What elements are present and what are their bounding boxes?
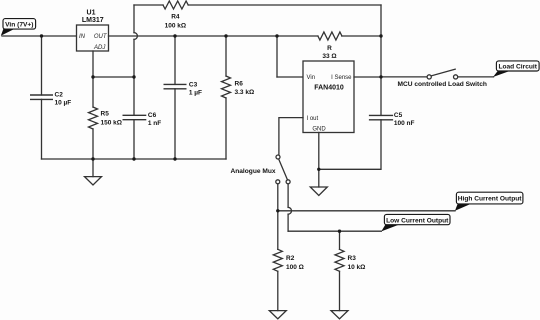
svg-text:10 µF: 10 µF [55, 100, 72, 107]
wire R6 branch top [225, 36, 227, 76]
wire FAN4010 Vin branch vertical x=277 [276, 36, 278, 77]
wire load switch right to Load Circuit flag [458, 76, 494, 78]
svg-text:IN: IN [79, 34, 86, 40]
wire R6 bottom to ground rail [225, 98, 227, 159]
resistor R6 zigzag [222, 76, 231, 98]
svg-text:FAN4010: FAN4010 [314, 84, 344, 91]
svg-text:100 Ω: 100 Ω [286, 264, 304, 271]
resistor R4 zigzag [163, 1, 188, 9]
wire mux left contact down to node [277, 184, 279, 211]
capacitor C2 plates [31, 95, 53, 99]
svg-text:R6: R6 [235, 81, 244, 88]
wire vertical x=134 hop to ADJ node [133, 39, 135, 77]
svg-text:R3: R3 [348, 255, 357, 262]
wire vertical x=134 upper (top rail down to hop) [133, 5, 135, 33]
svg-text:1 µF: 1 µF [189, 90, 202, 97]
wire vertical x=381 (top rail down through nodes to C5) [380, 5, 382, 115]
wire FAN4010 GND pin down [318, 133, 320, 188]
wire hop over high line at (288,210.8) [288, 207, 291, 214]
svg-text:33 Ω: 33 Ω [322, 53, 336, 60]
svg-text:C6: C6 [148, 112, 157, 119]
wire R5 bottom to ground rail [92, 129, 94, 159]
wire ground rail (y=159) [42, 158, 227, 160]
svg-text:Vin (7V+): Vin (7V+) [5, 22, 33, 29]
svg-text:Load Circuit: Load Circuit [498, 64, 537, 71]
wire C2 branch top (from input node) [41, 36, 43, 95]
wire load switch blade [431, 69, 455, 76]
svg-text:Analogue Mux: Analogue Mux [230, 168, 275, 175]
capacitor C3 plates [164, 84, 186, 88]
svg-text:LM317: LM317 [82, 17, 104, 24]
wire C2 bottom [41, 99, 43, 159]
ground symbol G2 [310, 187, 327, 195]
wire I Sense pin [354, 76, 381, 78]
svg-text:R2: R2 [286, 255, 295, 262]
svg-text:C5: C5 [394, 112, 403, 119]
svg-text:Vin: Vin [307, 75, 316, 81]
svg-text:U1: U1 [87, 10, 96, 17]
svg-text:OUT: OUT [94, 34, 108, 40]
wire high current output line (y=210.8) [278, 210, 455, 212]
svg-text:ADJ: ADJ [93, 45, 106, 51]
wire C6 bottom [133, 120, 135, 159]
wire C3 bottom [174, 89, 176, 159]
switch contact circles: MCU load switch [427, 75, 431, 79]
svg-text:GND: GND [312, 126, 326, 132]
svg-text:3.3 kΩ: 3.3 kΩ [235, 89, 255, 96]
resistor R5 zigzag [89, 107, 98, 129]
svg-text:100 kΩ: 100 kΩ [165, 22, 186, 29]
svg-text:R5: R5 [101, 111, 110, 118]
resistor R2 zigzag [273, 249, 282, 271]
svg-text:10 kΩ: 10 kΩ [348, 264, 366, 271]
ground symbol G4 [331, 311, 348, 319]
wire R3 branch down [339, 231, 341, 249]
wire C6 branch (below ADJ node) [133, 77, 135, 115]
ground symbol G3 [269, 311, 286, 319]
ground symbol G1 [85, 177, 102, 185]
wire U1 OUT rail (y=36) [109, 35, 318, 37]
wire top rail right of R4 [188, 4, 381, 6]
wire U1 ADJ pin down [92, 51, 94, 77]
svg-text:R4: R4 [171, 13, 180, 20]
wire ADJ node horizontal (93,77)-(134,77) [93, 76, 134, 78]
wire R2 bottom to ground [277, 271, 279, 310]
svg-text:1 nF: 1 nF [148, 120, 161, 127]
flag Vin (7V+) [1, 19, 36, 36]
wire low current output line (y=231.2) [288, 230, 381, 232]
svg-text:R: R [327, 45, 332, 52]
wire top feedback rail (y=5) [134, 4, 163, 6]
wire ADJ down to R5 [92, 77, 94, 107]
wire C3 branch top [174, 36, 176, 84]
svg-text:I out: I out [307, 116, 319, 122]
wire mux blade [279, 159, 288, 180]
wire hop over OUT rail at (134,36) [134, 33, 137, 40]
flag Load Circuit [493, 61, 539, 77]
wire R right to node at x=381 [342, 35, 381, 37]
wire Vin input to U1 IN (y=36) [2, 35, 77, 37]
switch contact circles: analogue mux [276, 155, 280, 159]
svg-text:C3: C3 [189, 82, 198, 89]
svg-text:MCU controlled Load Switch: MCU controlled Load Switch [398, 81, 487, 88]
wire mux right contact below hop to low line [287, 214, 289, 231]
svg-text:150 kΩ: 150 kΩ [101, 120, 122, 127]
svg-text:C2: C2 [55, 92, 64, 99]
wire load switch left (from x=381 node) [381, 76, 427, 78]
op-amp U1 LM317 body [77, 25, 109, 51]
svg-text:Low Current Output: Low Current Output [386, 217, 449, 224]
capacitor C5 plates [370, 115, 393, 119]
svg-text:100 nF: 100 nF [394, 120, 415, 127]
wire FAN4010 Vin pin [277, 76, 303, 78]
svg-text:I Sense: I Sense [331, 75, 352, 81]
capacitor C6 plates [123, 115, 145, 119]
wire I out pin left and down [279, 118, 303, 155]
wire C5 bottom to gnd line [319, 120, 381, 170]
flag High Current Output [455, 192, 523, 211]
resistor R (33 ohm shunt) zigzag [318, 32, 342, 40]
wire mux right contact down to hop [287, 184, 289, 208]
wire R2 branch down [277, 211, 279, 250]
flag Low Current Output [381, 214, 450, 231]
wire R3 bottom to ground [339, 271, 341, 310]
op-amp U2 FAN4010 body [303, 61, 354, 133]
resistor R3 zigzag [335, 249, 344, 271]
wire ground stub below R5 [92, 159, 94, 177]
svg-text:High Current Output: High Current Output [458, 196, 523, 203]
